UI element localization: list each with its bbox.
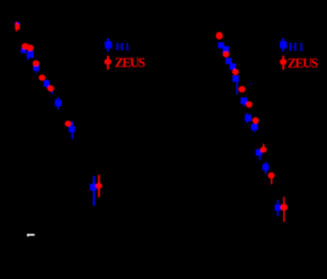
svg-text:ZEUS: ZEUS	[115, 55, 145, 70]
svg-text:ZEUS: ZEUS	[287, 55, 317, 70]
svg-text:H1: H1	[115, 41, 130, 53]
svg-text:H1: H1	[288, 42, 305, 54]
